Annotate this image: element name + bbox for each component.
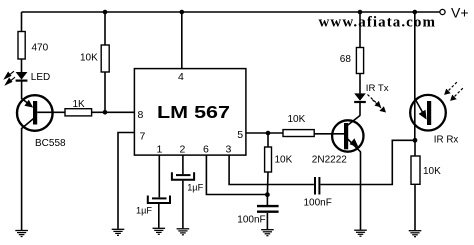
- node rail-10K: [103, 10, 108, 15]
- op-amp U1 LM567 box: [134, 69, 246, 156]
- svg-text:2N2222: 2N2222: [312, 154, 347, 165]
- wire C4 to IR Rx node: [321, 140, 416, 184]
- transistor IR Rx: [410, 95, 458, 146]
- wire 10K to junction: [104, 72, 106, 112]
- ground 10K right: [409, 231, 422, 237]
- svg-text:6: 6: [203, 144, 209, 156]
- ground Q1: [15, 231, 28, 237]
- ground C3: [261, 230, 274, 236]
- svg-text:LM 567: LM 567: [157, 102, 230, 122]
- node rail-IRRx: [413, 10, 418, 15]
- svg-text:V+: V+: [451, 4, 469, 20]
- wire node to 10K right: [414, 140, 416, 156]
- transistor Q1 BC558: [17, 95, 66, 149]
- capacitor C2 1uF: [172, 172, 204, 192]
- LED D1: [16, 72, 51, 83]
- wire 68 to IR Tx: [359, 74, 361, 94]
- wire 10K right to ground: [414, 184, 416, 230]
- ground C2: [177, 229, 190, 235]
- svg-text:68: 68: [340, 54, 352, 65]
- node pin6/10Kv/C3 junction: [265, 192, 270, 197]
- svg-text:5: 5: [237, 129, 243, 141]
- node rail-pin4: [180, 10, 185, 15]
- resistor R 10K vertical mid: [265, 147, 293, 172]
- wire Q1 base: [37, 111, 65, 113]
- resistor R 68: [340, 48, 364, 74]
- wire 10Kv to junction: [266, 172, 269, 195]
- wire C1 to ground: [158, 204, 160, 228]
- ground Q2: [354, 230, 367, 236]
- svg-text:LED: LED: [31, 72, 50, 83]
- wire rail to 10K: [104, 12, 106, 45]
- resistor R 10K horizontal: [283, 114, 314, 137]
- svg-text:10K: 10K: [288, 114, 306, 125]
- wire 470 to LED: [21, 59, 23, 72]
- ground pin7: [112, 229, 125, 235]
- svg-text:8: 8: [138, 109, 144, 121]
- node IRRx/10K junction: [413, 138, 418, 143]
- wire C2 to ground: [182, 181, 184, 229]
- node pin5 junction: [266, 131, 271, 136]
- wire Q2 emitter to ground: [360, 152, 362, 230]
- transistor Q2 2N2222: [312, 116, 364, 166]
- svg-text:IR Rx: IR Rx: [434, 135, 459, 146]
- wire pin 2 to C2: [182, 155, 184, 174]
- wire pin 5 to junction: [246, 132, 283, 134]
- capacitor C3 100nF vertical: [237, 195, 278, 226]
- wire pin 3 to C4: [229, 155, 314, 184]
- ground C1: [153, 228, 166, 234]
- svg-text:1: 1: [157, 144, 163, 156]
- svg-text:100nF: 100nF: [304, 197, 332, 208]
- svg-text:7: 7: [140, 131, 146, 143]
- resistor 470: [18, 32, 49, 60]
- wire pin 1 to C1: [158, 155, 160, 197]
- svg-text:100nF: 100nF: [237, 215, 265, 226]
- wire junction to 10K vertical: [267, 133, 269, 147]
- LED IR Tx: [354, 83, 389, 102]
- wire top supply rail: [22, 11, 440, 13]
- svg-text:3: 3: [226, 144, 232, 156]
- svg-text:IR Tx: IR Tx: [366, 83, 389, 94]
- svg-text:4: 4: [178, 71, 184, 83]
- node junction 1K/10K/pin8: [103, 110, 108, 115]
- node V+ terminal: [440, 4, 469, 20]
- svg-text:www.afiata.com: www.afiata.com: [319, 15, 436, 31]
- resistor R 10K right: [411, 156, 441, 184]
- svg-text:10K: 10K: [275, 155, 293, 166]
- svg-text:10K: 10K: [423, 166, 441, 177]
- wire LED to Q1: [21, 82, 23, 100]
- svg-text:10K: 10K: [80, 53, 98, 64]
- IR Rx light arrows: [448, 82, 463, 97]
- wire rail through IR Rx to node: [414, 12, 416, 140]
- capacitor C1 1uF: [136, 196, 170, 216]
- node rail-68: [358, 10, 363, 15]
- resistor R 10K top-left: [80, 45, 109, 72]
- capacitor C4 100nF horizontal: [304, 177, 332, 208]
- wire pin 7 to ground: [118, 133, 134, 229]
- svg-text:BC558: BC558: [35, 138, 66, 149]
- wire IR Tx to Q2 collector: [359, 103, 361, 116]
- IR Tx light arrows: [368, 95, 383, 109]
- svg-text:1K: 1K: [73, 99, 86, 110]
- svg-text:470: 470: [32, 42, 49, 53]
- resistor R 1K: [65, 99, 92, 116]
- wire pin 6 to junction: [206, 155, 267, 194]
- wire rail to pin 4: [181, 12, 183, 69]
- wire rail to R 470: [21, 12, 23, 32]
- wire C3 to ground: [266, 213, 268, 229]
- svg-text:2: 2: [180, 144, 186, 156]
- svg-text:1µF: 1µF: [136, 206, 152, 216]
- wire 10Kh to Q2 base: [314, 133, 344, 135]
- wire Q1 emitter to ground: [21, 128, 23, 230]
- wire rail to 68: [359, 12, 361, 48]
- LED light arrows: [5, 71, 15, 84]
- wire 1K to pin 8: [92, 111, 135, 113]
- svg-text:1µF: 1µF: [187, 183, 203, 193]
